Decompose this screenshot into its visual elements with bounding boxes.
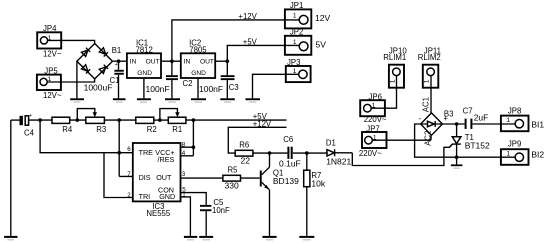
- wire JP6 to JP10: [371, 76, 396, 109]
- capacitor C7 2uF: [463, 106, 516, 128]
- svg-text:JP8: JP8: [508, 107, 521, 116]
- wire R1 to +5V stub: [186, 112, 287, 121]
- svg-text:100nF: 100nF: [146, 84, 170, 94]
- svg-text:OUT: OUT: [156, 173, 172, 182]
- connector JP2: [285, 27, 326, 54]
- svg-text:IN: IN: [184, 59, 191, 66]
- svg-text:JP9: JP9: [508, 139, 521, 148]
- svg-text:7805: 7805: [189, 45, 207, 54]
- svg-text:12V~: 12V~: [43, 91, 62, 100]
- node +5V junction: [226, 59, 230, 63]
- ground at T1 cathode: [451, 164, 463, 168]
- svg-text:100nF: 100nF: [199, 84, 223, 94]
- capacitor C5 10nF: [200, 198, 230, 236]
- svg-text:AC1: AC1: [422, 97, 431, 112]
- ground at JP3: [246, 98, 261, 102]
- svg-text:C3: C3: [229, 83, 239, 92]
- svg-text:1: 1: [507, 117, 511, 124]
- svg-text:DIS: DIS: [139, 173, 151, 182]
- svg-text:1: 1: [507, 151, 511, 158]
- ground at Q1 emitter: [262, 236, 276, 240]
- svg-text:C2: C2: [183, 79, 193, 88]
- wire GND pin 1 to ground: [181, 197, 191, 236]
- svg-text:2: 2: [127, 192, 131, 199]
- svg-text:+12V: +12V: [238, 12, 257, 21]
- svg-text:D1: D1: [326, 138, 336, 147]
- svg-text:TRE: TRE: [139, 148, 154, 157]
- thyristor T1 BT152: [449, 124, 490, 164]
- svg-text:1000uF: 1000uF: [84, 83, 113, 93]
- svg-text:GND: GND: [137, 70, 152, 77]
- svg-text:-: -: [418, 114, 421, 123]
- svg-text:+: +: [29, 113, 32, 119]
- svg-text:JP3: JP3: [287, 58, 300, 67]
- svg-text:BT152: BT152: [465, 141, 490, 151]
- svg-text:OUT: OUT: [200, 59, 214, 66]
- svg-text:+: +: [115, 62, 118, 68]
- svg-text:6: 6: [127, 146, 131, 153]
- svg-text:10nF: 10nF: [212, 206, 230, 215]
- wire JP5 to bridge bottom: [47, 79, 94, 82]
- wire bridge plus to IC1 IN: [113, 60, 127, 62]
- svg-text:12V: 12V: [315, 13, 330, 23]
- connector JP6: [360, 93, 387, 124]
- ground at IC3 GND: [184, 236, 197, 240]
- svg-text:BD139: BD139: [273, 176, 299, 186]
- resistor R2: [136, 117, 157, 134]
- wire +5V rail to JP2: [227, 38, 299, 62]
- svg-text:TRI: TRI: [139, 192, 151, 201]
- ground at IC2 GND: [191, 78, 206, 103]
- svg-text:2uF: 2uF: [474, 113, 489, 123]
- capacitor C1 1000uF: [84, 61, 124, 98]
- capacitor C3 100nF: [199, 61, 239, 98]
- svg-text:220V~: 220V~: [364, 115, 387, 124]
- svg-text:220V~: 220V~: [359, 149, 382, 158]
- potentiometer wiper R3: [77, 109, 97, 121]
- ground at IC1 GND: [137, 78, 151, 103]
- svg-text:1N821: 1N821: [326, 156, 351, 166]
- wire TRI riser: [104, 153, 133, 198]
- svg-text:/RES: /RES: [158, 155, 175, 164]
- svg-text:5V: 5V: [316, 39, 327, 49]
- connector JP8 BI1: [501, 107, 545, 132]
- node T1 cathode junction: [455, 155, 459, 159]
- svg-text:RLIM2: RLIM2: [418, 53, 441, 62]
- svg-text:R4: R4: [62, 125, 73, 134]
- ground at C5: [199, 236, 213, 240]
- svg-text:C4: C4: [24, 128, 35, 137]
- node pin8 junction: [192, 145, 196, 149]
- wire JP3 to ground: [253, 74, 299, 98]
- ground at C3: [220, 98, 235, 102]
- svg-text:+5V: +5V: [243, 38, 258, 47]
- wire VCC pin 8 and RES pin 4: [181, 120, 194, 156]
- diode B1 lower-left: [81, 65, 90, 74]
- svg-text:R6: R6: [239, 141, 249, 150]
- wire JP7 to B3 AC2: [372, 139, 431, 141]
- ground at R7: [299, 236, 314, 240]
- wire C4 node to TRE: [40, 120, 133, 153]
- connector JP10 RLIM1: [383, 47, 407, 88]
- potentiometer R3: [86, 117, 106, 134]
- svg-text:1: 1: [389, 79, 396, 83]
- timer IC3 NE555: [127, 142, 186, 219]
- resistor R5 330: [223, 166, 241, 191]
- node VCC riser junction: [192, 118, 196, 122]
- wire +12V stub: [228, 119, 286, 153]
- wire B3 AC2 stub: [423, 131, 432, 146]
- svg-text:B1: B1: [112, 46, 122, 55]
- capacitor C2 100nF: [146, 61, 193, 98]
- svg-text:+12V: +12V: [253, 119, 272, 128]
- svg-text:NE555: NE555: [146, 209, 171, 218]
- wire R5 to Q1 base: [241, 177, 260, 179]
- svg-text:GND: GND: [159, 192, 175, 201]
- svg-text:OUT: OUT: [146, 59, 160, 66]
- svg-text:330: 330: [225, 181, 239, 191]
- svg-text:R2: R2: [147, 125, 157, 134]
- resistor R6 22: [235, 141, 253, 166]
- potentiometer wiper R1: [160, 109, 180, 121]
- wire CON pin 5 to C5: [181, 193, 207, 205]
- ground at C1: [113, 98, 126, 102]
- svg-text:7812: 7812: [136, 45, 153, 54]
- potentiometer R1: [168, 117, 186, 134]
- wire R2 to R1: [154, 119, 169, 121]
- diode B1 lower-right: [99, 65, 108, 74]
- svg-text:JP4: JP4: [43, 24, 57, 33]
- connector JP4: [37, 24, 62, 58]
- wire +12V rail to JP1: [172, 12, 299, 61]
- node R7 junction: [305, 151, 309, 155]
- wire D1 to T1 gate: [352, 144, 452, 166]
- transistor Q1 BD139: [260, 153, 299, 236]
- connector JP7: [359, 124, 387, 158]
- node Q1 collector junction: [268, 151, 272, 155]
- svg-text:JP5: JP5: [44, 67, 58, 76]
- wire B3 minus to T1 cathode: [415, 124, 516, 157]
- wire R6 to C6: [253, 152, 288, 154]
- wire IC1 OUT to IC2 IN: [161, 60, 181, 62]
- svg-text:7: 7: [127, 171, 131, 178]
- svg-text:IN: IN: [130, 59, 137, 66]
- resistor R4: [52, 117, 73, 134]
- capacitor C4: [11, 113, 52, 138]
- svg-text:1: 1: [293, 13, 297, 20]
- svg-text:JP7: JP7: [366, 124, 379, 133]
- node junction C1: [117, 59, 121, 63]
- svg-text:+: +: [443, 114, 448, 123]
- connector JP9 BI2: [501, 139, 545, 164]
- wire junction to DIS: [119, 120, 133, 176]
- wire R3 to R2: [104, 119, 135, 121]
- svg-text:C7: C7: [463, 106, 473, 115]
- svg-text:BI2: BI2: [531, 150, 544, 160]
- diode B1 upper-right: [99, 48, 108, 57]
- node junction after R3: [117, 118, 121, 122]
- svg-text:12V~: 12V~: [43, 50, 62, 59]
- svg-text:10k: 10k: [311, 179, 325, 189]
- regulator IC1 7812: [127, 39, 161, 78]
- svg-text:RLIM1: RLIM1: [383, 53, 406, 62]
- svg-text:1: 1: [293, 39, 297, 46]
- connector JP3: [286, 58, 311, 82]
- diode B1 upper-left: [81, 48, 90, 57]
- svg-text:R3: R3: [96, 125, 106, 134]
- diode D1 1N821: [326, 138, 352, 166]
- svg-text:22: 22: [241, 156, 251, 166]
- svg-text:C6: C6: [283, 135, 293, 144]
- regulator IC2 7805: [181, 39, 215, 78]
- svg-text:3: 3: [182, 171, 186, 178]
- node C4 junction: [38, 118, 42, 122]
- ground at C2: [165, 98, 180, 102]
- ground at C4 left: [4, 120, 17, 240]
- wire R4 to R3: [70, 119, 86, 121]
- resistor R7 10k: [304, 153, 326, 236]
- svg-text:JP6: JP6: [369, 93, 382, 102]
- wire IC2 OUT: [215, 60, 227, 62]
- svg-text:GND: GND: [191, 70, 206, 77]
- wire JP4 to bridge top: [48, 40, 95, 43]
- ground at bridge minus: [70, 61, 84, 102]
- svg-text:0.1uF: 0.1uF: [279, 159, 301, 169]
- svg-text:R5: R5: [228, 166, 239, 175]
- connector JP1: [285, 1, 331, 29]
- svg-text:AC2: AC2: [423, 131, 432, 146]
- connector JP5: [37, 67, 62, 101]
- node R3 wiper junction: [76, 118, 80, 122]
- node R1 wiper junction: [158, 118, 162, 122]
- svg-text:JP1: JP1: [290, 1, 303, 10]
- svg-text:R1: R1: [172, 125, 182, 134]
- node TRE junction: [117, 151, 121, 155]
- svg-text:1: 1: [424, 79, 431, 83]
- svg-text:JP2: JP2: [290, 27, 303, 36]
- bridge rectifier B3: [418, 109, 453, 135]
- wire B3 plus to C7: [442, 123, 464, 125]
- capacitor C6 0.1uF: [279, 135, 327, 169]
- wire OUT pin 3 to R5: [181, 177, 223, 179]
- bridge rectifier B1: [77, 44, 121, 79]
- wire JP11 to B3 AC1: [422, 76, 431, 113]
- node +12V junction: [170, 59, 174, 63]
- node T1 anode junction: [455, 122, 459, 126]
- svg-text:BI1: BI1: [531, 119, 544, 129]
- connector JP11 RLIM2: [418, 47, 441, 88]
